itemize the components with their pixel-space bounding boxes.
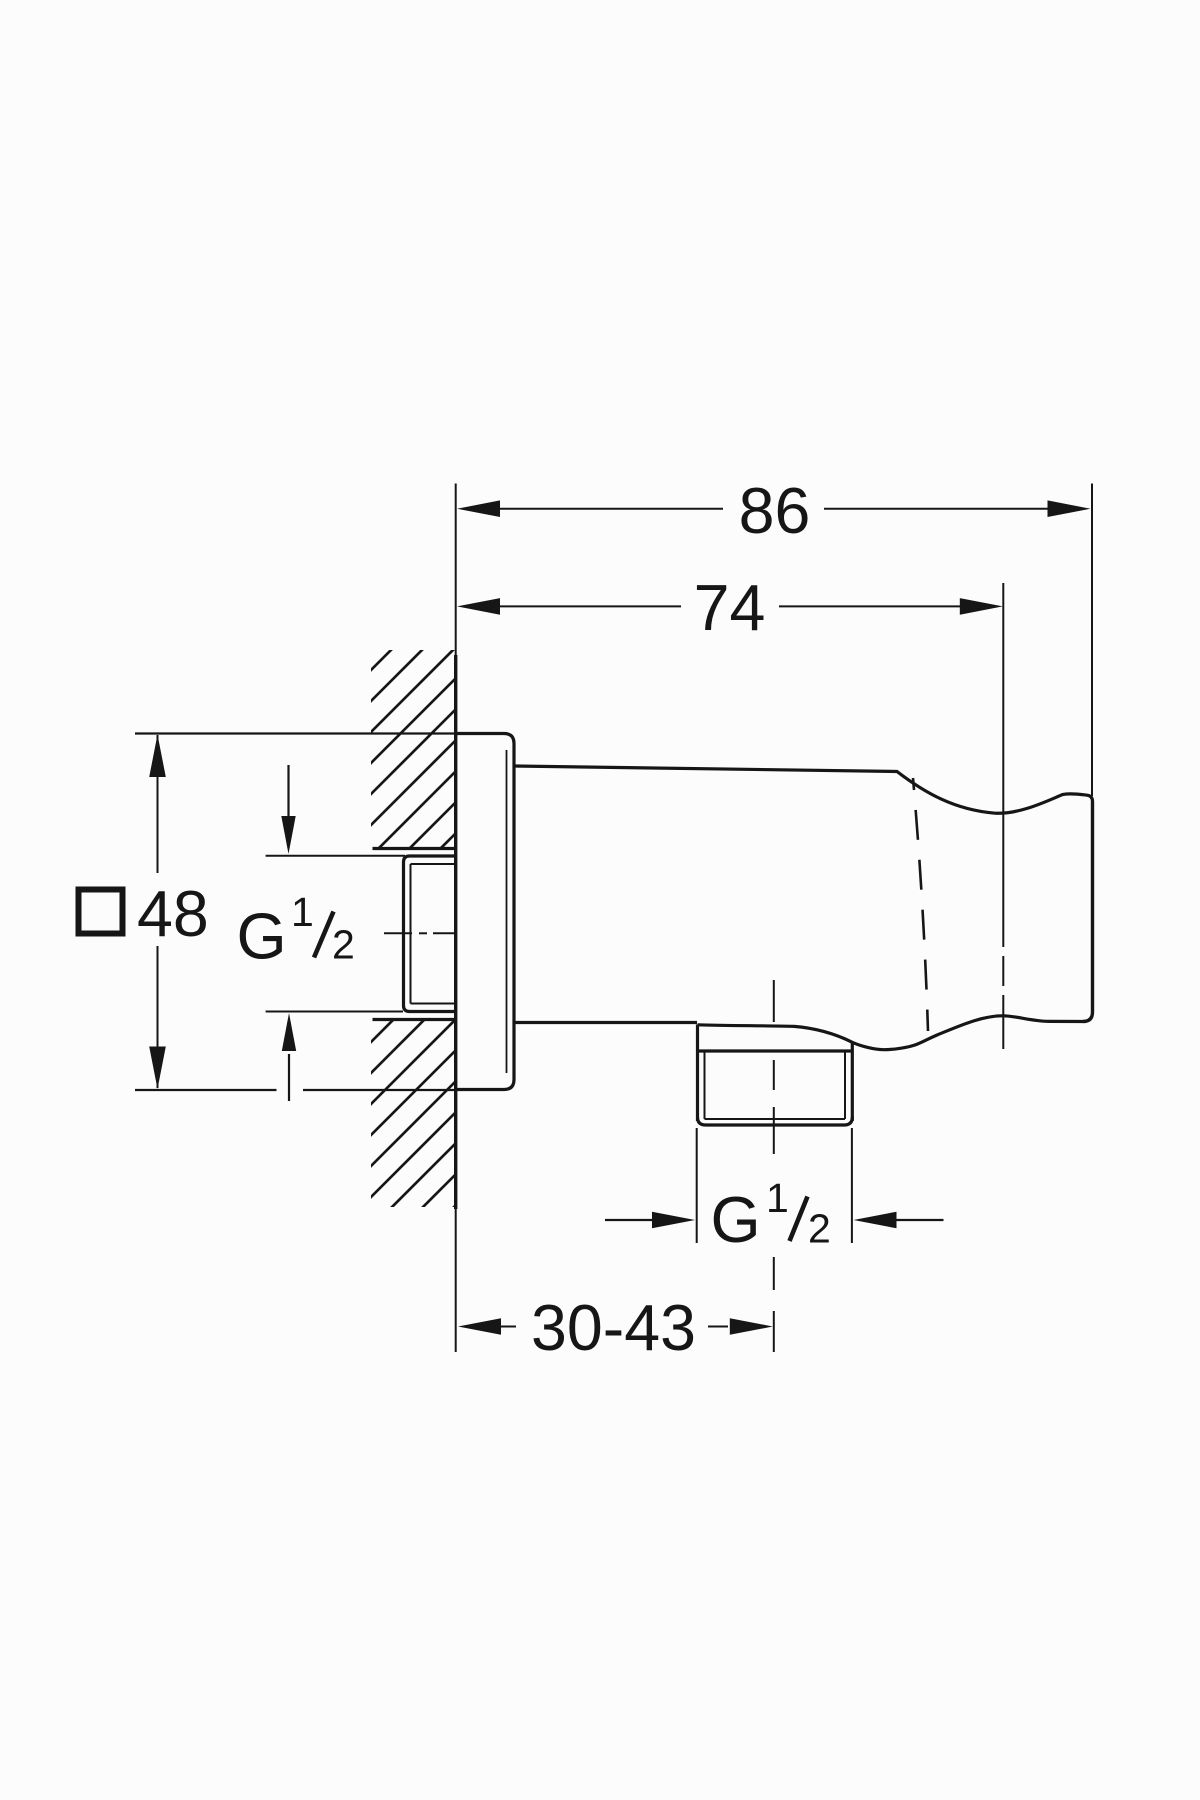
inlet thread dimension: bottom extension line	[266, 1011, 403, 1013]
holder bottom profile	[852, 1016, 1083, 1050]
wall hole top edge	[373, 847, 456, 850]
inlet thread dimension: up arrow	[282, 1013, 296, 1101]
dimension 48: top arrowhead	[149, 735, 166, 778]
svg-text:30-43: 30-43	[531, 1292, 696, 1364]
inlet thread dimension: down arrow	[281, 765, 295, 854]
inlet thread nut G1/2 (wall side)	[404, 856, 456, 1012]
dimension 48: dimension line	[157, 735, 159, 1088]
holder right edge	[1083, 802, 1093, 1022]
outlet thread dimension: left arrow	[605, 1212, 695, 1229]
dimension 48: bottom extension line	[135, 1089, 456, 1091]
hidden transition line (dashed)	[913, 778, 928, 1031]
svg-text:2: 2	[332, 922, 355, 968]
svg-text:G: G	[237, 901, 287, 973]
holder center line	[1002, 583, 1004, 1049]
dimension 86: right arrowhead	[1048, 500, 1091, 517]
svg-text:1: 1	[291, 889, 314, 935]
outlet thread dimension: right arrow	[854, 1212, 944, 1229]
dimension 48: bottom arrowhead	[149, 1047, 166, 1090]
body top edge and holder top profile	[514, 766, 1093, 813]
dimension 86: left arrowhead	[457, 500, 500, 517]
outlet thread dimension: left extension line	[696, 1128, 698, 1243]
svg-text:48: 48	[137, 878, 209, 950]
body bottom edge	[514, 1021, 697, 1024]
outlet thread label G 1/2	[711, 1175, 831, 1256]
flange (escutcheon)	[456, 734, 515, 1090]
dimension 30-43: dimension line	[500, 1326, 728, 1328]
dimension 74: dimension line	[499, 605, 962, 607]
outlet nut G1/2	[698, 1025, 853, 1126]
outlet thread dimension: right extension line	[851, 1128, 853, 1243]
inlet thread label G 1/2	[237, 889, 355, 973]
svg-text:74: 74	[694, 572, 766, 644]
inlet thread dimension: top extension line	[266, 855, 405, 857]
dimension 86: extension line right	[1091, 484, 1093, 797]
dimension 48: square symbol	[79, 890, 123, 934]
svg-text:1: 1	[766, 1175, 789, 1221]
dimension 74: right arrowhead	[960, 598, 1003, 615]
svg-text:86: 86	[739, 475, 811, 547]
dimension 30-43: left arrowhead	[458, 1318, 501, 1335]
dimension 86: dimension line	[499, 508, 1049, 510]
outlet neck top contour	[698, 1025, 853, 1043]
wall face line	[455, 484, 457, 1353]
inlet center line	[384, 932, 456, 934]
dimension 74: left arrowhead	[457, 598, 500, 615]
svg-text:2: 2	[808, 1206, 831, 1252]
outlet center line	[773, 980, 775, 1352]
dimension 48: top extension line	[135, 732, 456, 734]
dimension 30-43: right arrowhead	[730, 1318, 773, 1335]
wall hole bottom edge	[373, 1018, 456, 1021]
svg-text:G: G	[711, 1184, 761, 1256]
wall hatching	[368, 581, 460, 1324]
